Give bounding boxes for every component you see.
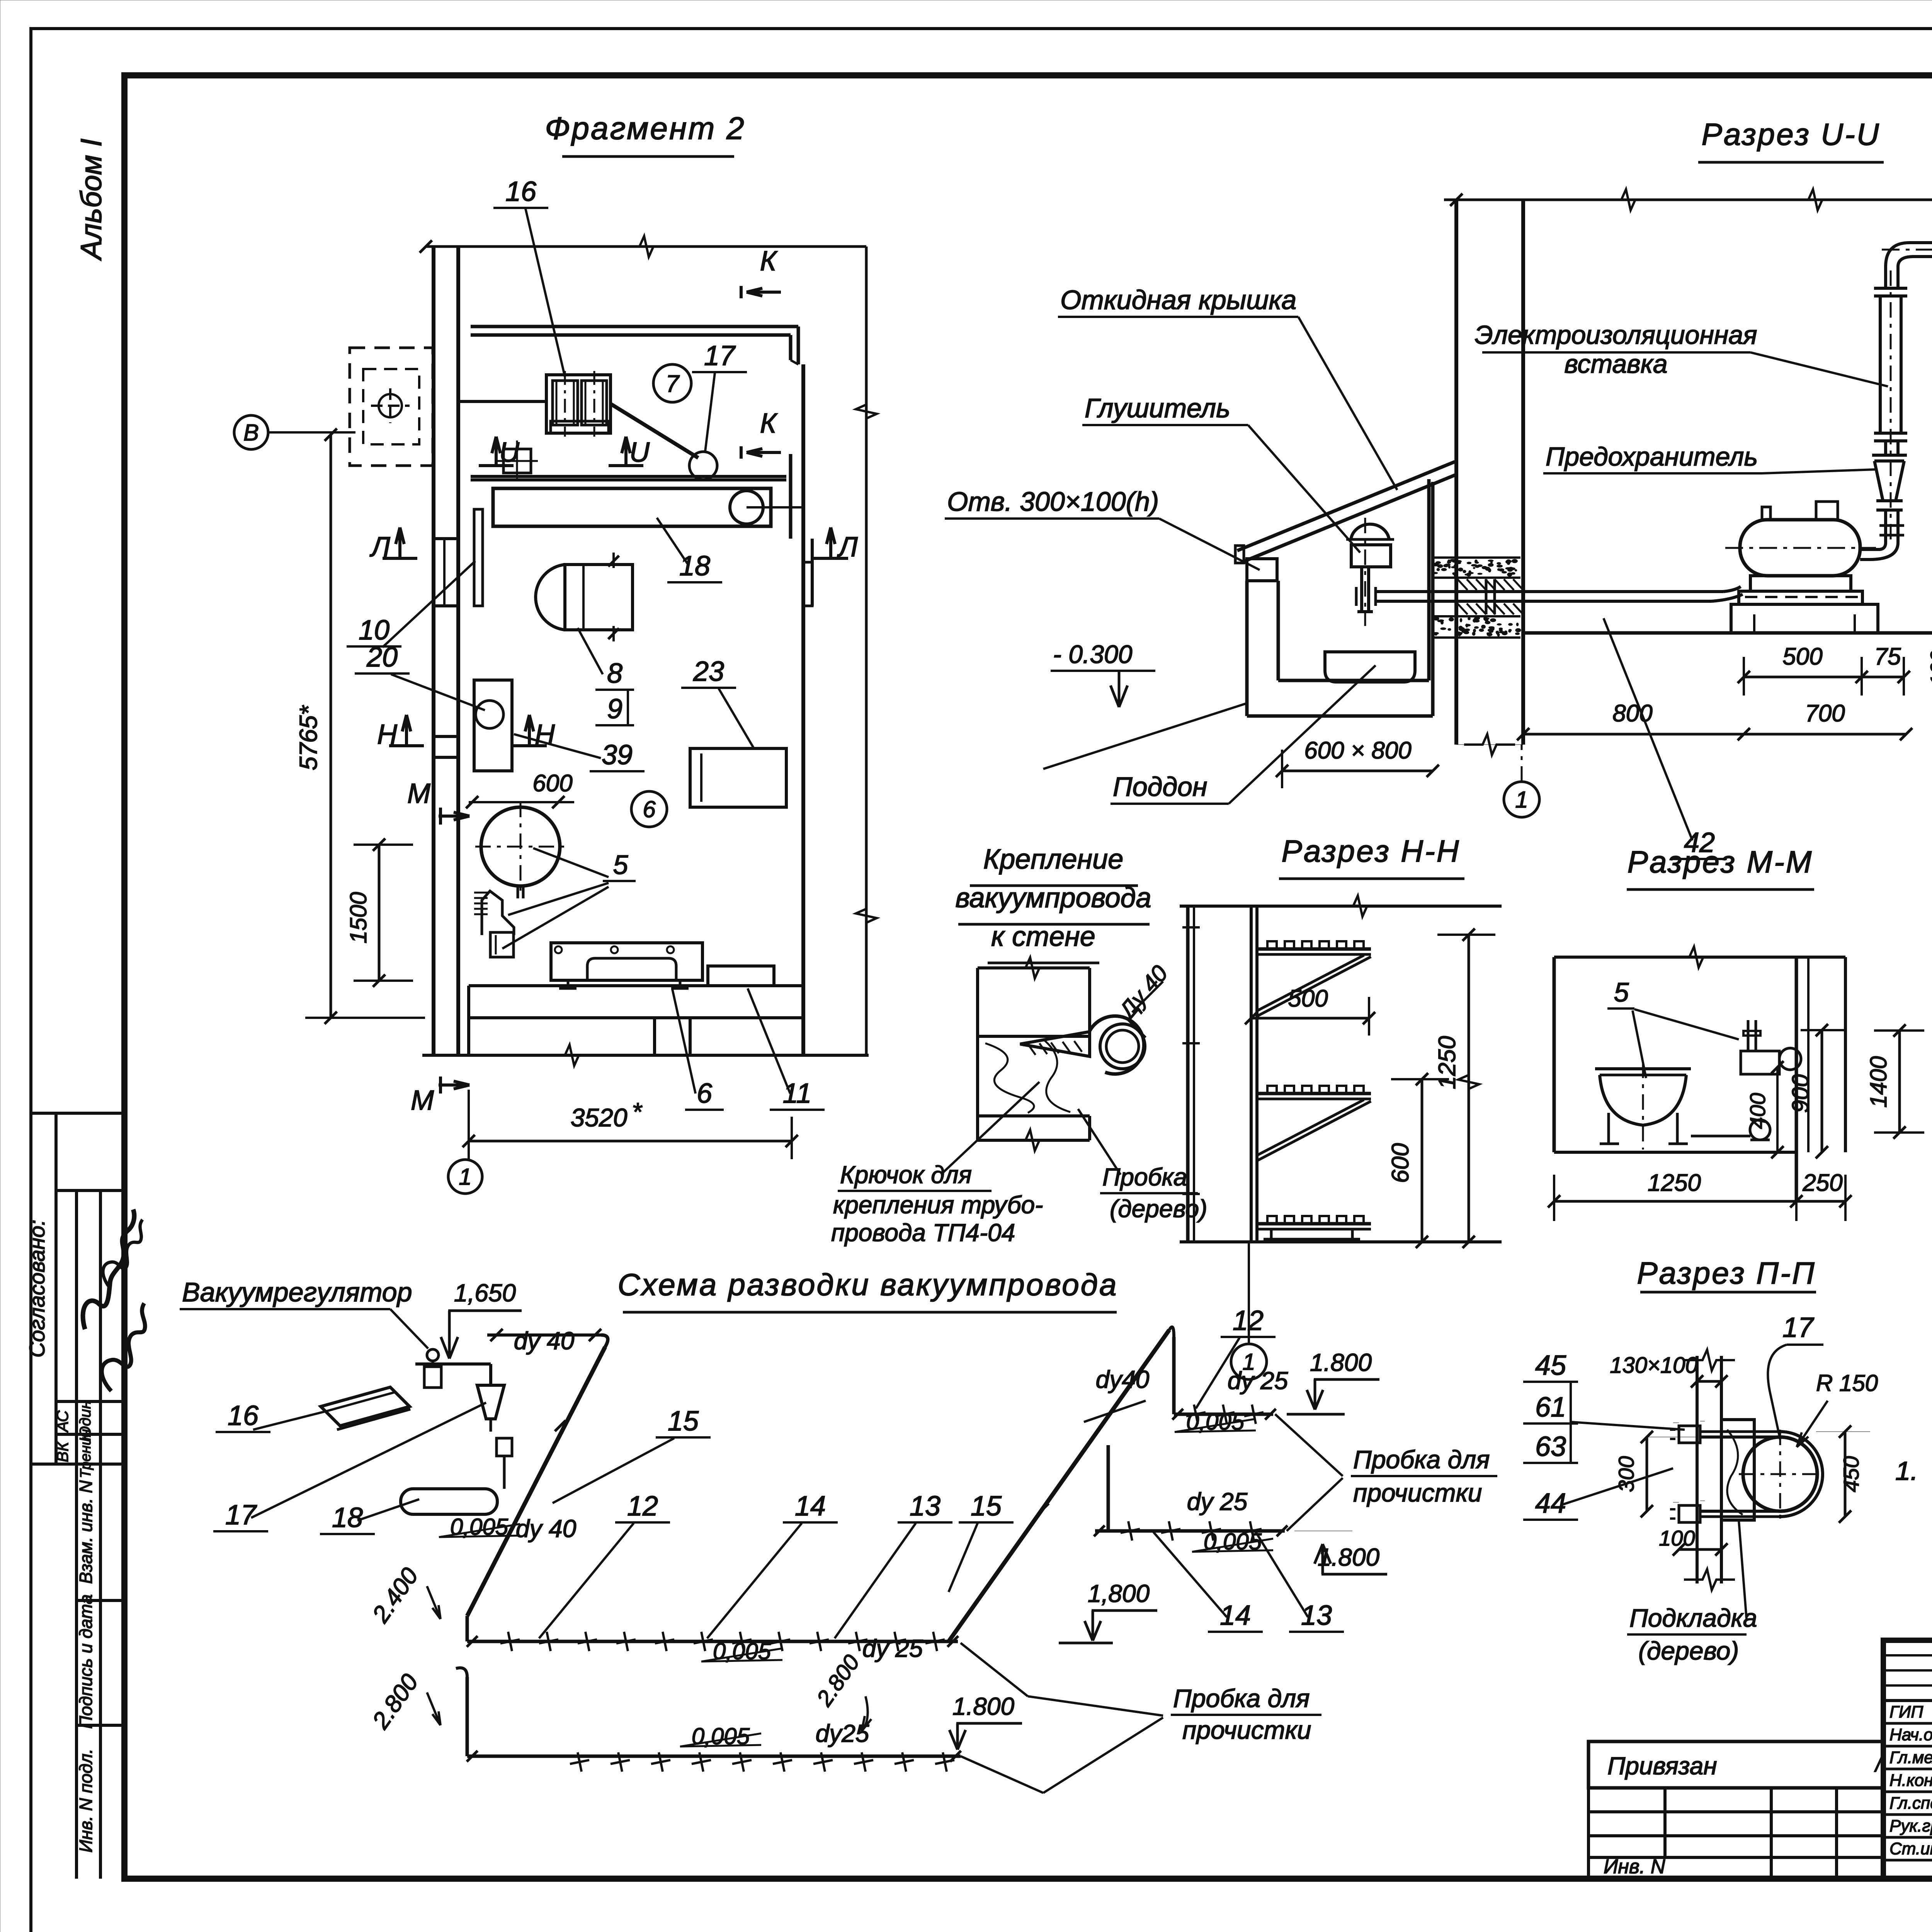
svg-text:75: 75	[1874, 643, 1901, 670]
svg-text:250: 250	[1802, 1170, 1842, 1196]
svg-text:1,800: 1,800	[1088, 1580, 1150, 1607]
svg-text:1,650: 1,650	[454, 1279, 516, 1307]
svg-text:0,005: 0,005	[1186, 1409, 1245, 1435]
svg-text:dy 25: dy 25	[862, 1634, 923, 1662]
svg-text:1.800: 1.800	[1310, 1349, 1372, 1376]
svg-text:Фрагмент 2: Фрагмент 2	[545, 111, 746, 146]
svg-text:0,005: 0,005	[450, 1514, 509, 1540]
svg-text:Л: Л	[369, 532, 390, 563]
svg-text:провода ТП4-04: провода ТП4-04	[831, 1219, 1015, 1247]
svg-text:К: К	[760, 246, 778, 277]
svg-text:400: 400	[1745, 1093, 1770, 1129]
svg-text:12: 12	[627, 1491, 658, 1522]
svg-text:1: 1	[1515, 787, 1528, 813]
svg-text:Схема разводки вакуумпровода: Схема разводки вакуумпровода	[618, 1267, 1118, 1302]
svg-text:Поддон: Поддон	[1113, 772, 1207, 802]
svg-text:17: 17	[1782, 1312, 1815, 1343]
svg-text:Пробка для: Пробка для	[1173, 1684, 1310, 1713]
svg-text:1.800: 1.800	[952, 1692, 1015, 1720]
svg-text:Альбом I: Альбом I	[75, 139, 108, 261]
svg-text:dy25: dy25	[816, 1719, 869, 1747]
svg-text:Откидная крышка: Откидная крышка	[1060, 285, 1296, 315]
svg-text:1250: 1250	[1434, 1036, 1461, 1089]
svg-text:39: 39	[602, 740, 633, 770]
svg-text:500: 500	[1288, 985, 1328, 1012]
svg-text:Предохранитель: Предохранитель	[1546, 442, 1758, 471]
svg-text:АС: АС	[53, 1410, 71, 1433]
svg-text:М: М	[411, 1085, 434, 1116]
svg-text:В: В	[243, 420, 259, 446]
svg-text:Инв. N: Инв. N	[1604, 1855, 1665, 1878]
svg-text:1: 1	[459, 1164, 471, 1190]
svg-text:15: 15	[668, 1406, 699, 1437]
svg-text:600: 600	[1387, 1143, 1414, 1183]
svg-text:- 0.300: - 0.300	[1053, 640, 1133, 668]
svg-text:13: 13	[910, 1491, 940, 1522]
svg-text:Пробка для: Пробка для	[1353, 1445, 1490, 1474]
svg-text:dy 25: dy 25	[1228, 1367, 1288, 1395]
svg-text:Отв. 300×100(h): Отв. 300×100(h)	[947, 486, 1159, 517]
svg-text:ВК: ВК	[53, 1441, 71, 1462]
svg-text:100: 100	[1659, 1526, 1695, 1550]
svg-text:dy 25: dy 25	[1187, 1488, 1248, 1515]
svg-text:23: 23	[693, 656, 724, 687]
svg-text:5: 5	[1614, 977, 1629, 1007]
svg-text:Гл.спец.: Гл.спец.	[1889, 1794, 1932, 1813]
svg-text:8: 8	[607, 658, 622, 689]
svg-text:1. Крепление вакуумпровода: 1. Крепление вакуумпровода ф 40 к стене …	[1895, 1456, 1932, 1486]
svg-text:1500: 1500	[345, 892, 371, 943]
svg-text:прочистки: прочистки	[1353, 1478, 1482, 1507]
svg-text:10: 10	[359, 615, 389, 646]
svg-text:М: М	[407, 778, 430, 809]
svg-text:17: 17	[225, 1500, 257, 1531]
svg-text:Подкладка: Подкладка	[1629, 1604, 1757, 1632]
svg-text:13: 13	[1301, 1600, 1332, 1631]
svg-text:Инв. N подл.: Инв. N подл.	[76, 1749, 96, 1853]
svg-text:20: 20	[366, 642, 398, 673]
svg-text:Нач.отд.: Нач.отд.	[1889, 1725, 1932, 1744]
svg-text:0,005: 0,005	[692, 1723, 750, 1749]
svg-text:*: *	[632, 1097, 643, 1126]
svg-text:вставка: вставка	[1564, 349, 1667, 379]
svg-text:15: 15	[971, 1491, 1002, 1522]
svg-text:Разрез U-U: Разрез U-U	[1702, 117, 1881, 151]
svg-text:500: 500	[1782, 643, 1822, 670]
svg-text:5765*: 5765*	[294, 705, 322, 770]
svg-text:7: 7	[666, 371, 680, 397]
svg-text:17: 17	[704, 340, 736, 371]
svg-text:Согласовано:: Согласовано:	[25, 1219, 49, 1357]
svg-text:14: 14	[795, 1491, 826, 1522]
svg-text:крепления трубо-: крепления трубо-	[833, 1191, 1043, 1219]
svg-text:130×100: 130×100	[1610, 1353, 1697, 1378]
svg-text:600 × 800: 600 × 800	[1304, 737, 1412, 764]
svg-text:Гл.механ.: Гл.механ.	[1889, 1748, 1932, 1767]
svg-text:450: 450	[1839, 1456, 1863, 1492]
svg-text:Н.контр.: Н.контр.	[1889, 1771, 1932, 1790]
svg-text:18: 18	[679, 551, 710, 582]
svg-text:Ст.инж.: Ст.инж.	[1889, 1839, 1932, 1858]
svg-text:6: 6	[643, 796, 656, 822]
svg-text:44: 44	[1535, 1488, 1566, 1519]
svg-text:dy 40: dy 40	[514, 1327, 575, 1355]
svg-text:Тренин: Тренин	[78, 1429, 94, 1478]
svg-text:R 150: R 150	[1816, 1370, 1878, 1396]
svg-text:600: 600	[532, 770, 572, 797]
svg-text:100: 100	[1926, 650, 1932, 686]
svg-text:ГИП: ГИП	[1889, 1702, 1923, 1721]
svg-text:(дерево): (дерево)	[1110, 1195, 1207, 1223]
svg-text:0,005: 0,005	[1204, 1529, 1262, 1554]
svg-text:(дерево): (дерево)	[1638, 1636, 1739, 1665]
svg-text:900: 900	[1787, 1074, 1813, 1113]
svg-text:к стене: к стене	[991, 921, 1095, 952]
svg-text:Разрез П-П: Разрез П-П	[1637, 1256, 1816, 1290]
svg-text:Электроизоляционная: Электроизоляционная	[1475, 320, 1757, 350]
svg-text:63: 63	[1535, 1431, 1566, 1462]
svg-text:12: 12	[1233, 1305, 1264, 1336]
svg-text:1250: 1250	[1648, 1170, 1701, 1196]
svg-text:Н: Н	[377, 719, 398, 750]
svg-text:18: 18	[332, 1502, 363, 1533]
svg-text:6: 6	[697, 1078, 713, 1109]
svg-text:Л: Л	[837, 532, 858, 563]
svg-text:Вакуумрегулятор: Вакуумрегулятор	[182, 1277, 412, 1307]
svg-text:3520: 3520	[571, 1103, 628, 1132]
svg-text:16: 16	[228, 1400, 259, 1431]
svg-text:вакуумпровода: вакуумпровода	[956, 883, 1151, 913]
svg-text:16: 16	[505, 176, 537, 207]
svg-text:5: 5	[613, 850, 629, 880]
svg-text:0,005: 0,005	[713, 1638, 771, 1664]
svg-text:dy40: dy40	[1096, 1366, 1150, 1393]
svg-text:9: 9	[607, 694, 622, 724]
svg-text:Привязан: Привязан	[1607, 1752, 1717, 1780]
svg-text:U: U	[629, 437, 650, 468]
svg-text:Взам. инв. N: Взам. инв. N	[76, 1480, 96, 1584]
svg-text:45: 45	[1535, 1350, 1566, 1381]
svg-text:61: 61	[1535, 1392, 1566, 1423]
svg-text:Рук.гр.: Рук.гр.	[1889, 1816, 1932, 1835]
svg-text:Глушитель: Глушитель	[1085, 393, 1230, 423]
svg-text:Разрез М-М: Разрез М-М	[1628, 845, 1813, 879]
svg-text:прочистки: прочистки	[1182, 1716, 1311, 1744]
svg-text:К: К	[760, 408, 778, 439]
svg-text:Подпись и дата: Подпись и дата	[76, 1594, 96, 1729]
svg-text:Разрез Н-Н: Разрез Н-Н	[1282, 834, 1461, 868]
svg-text:dy 40: dy 40	[516, 1515, 577, 1543]
svg-text:1400: 1400	[1866, 1056, 1891, 1107]
svg-text:700: 700	[1805, 700, 1845, 727]
svg-text:Крепление: Крепление	[983, 844, 1124, 875]
